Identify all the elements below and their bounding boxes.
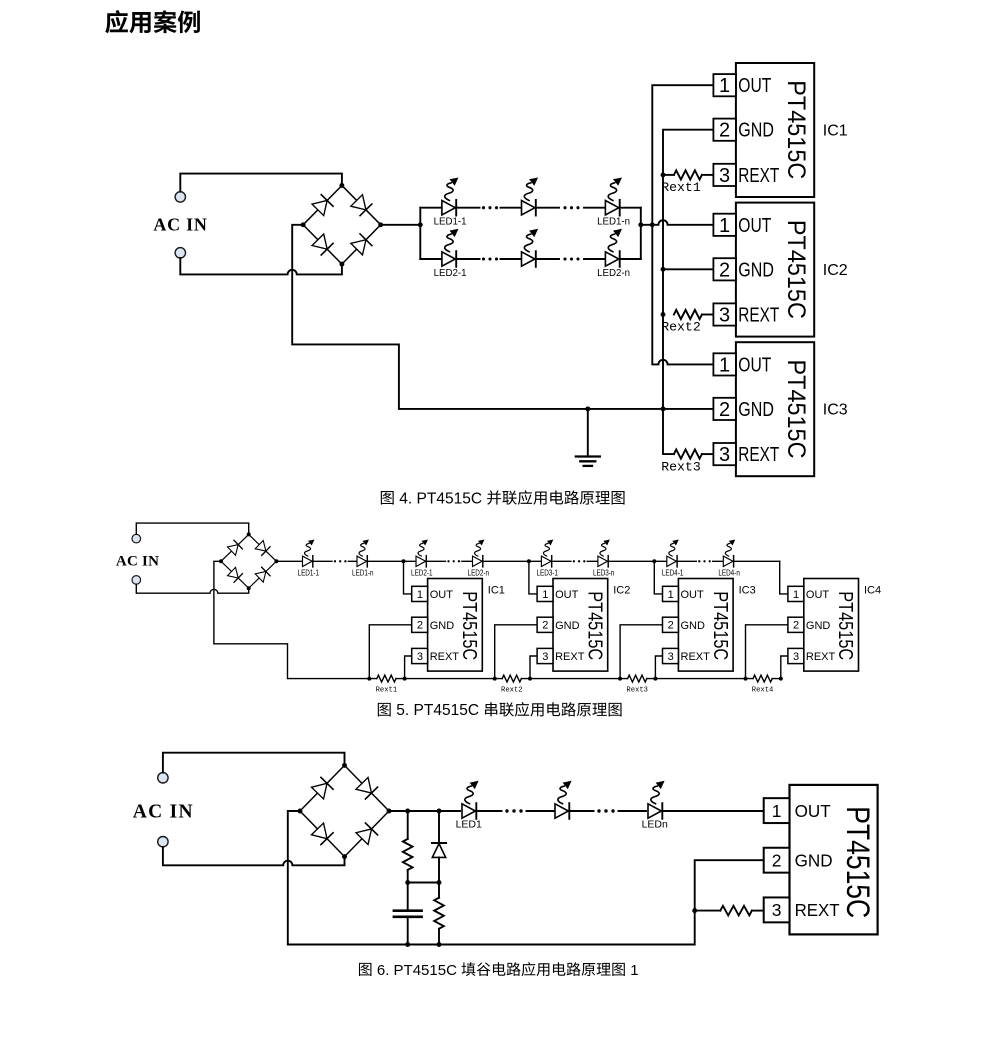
node: LED string right junction fig4 (638, 222, 643, 227)
svg-text:3: 3 (772, 900, 782, 920)
LED LED2-n fig5 (473, 540, 485, 567)
pin 1 (OUT) of IC2 fig5 (537, 586, 579, 601)
svg-text:6. PT4515C: 6. PT4515C (373, 962, 461, 979)
svg-text:4. PT4515C: 4. PT4515C (395, 490, 486, 507)
pin 1 (OUT) of IC3 fig4 (713, 353, 771, 376)
svg-text:LEDn: LEDn (642, 819, 668, 831)
ground symbol fig4 (576, 409, 600, 466)
wire: LED row2 segments fig4 (420, 258, 641, 260)
ellipsis dots LED line fig6 (505, 809, 614, 812)
node: GND bus junction IC3 pin2 fig4 (661, 406, 666, 411)
svg-text:LED1-1: LED1-1 (434, 216, 467, 228)
svg-text:REXT: REXT (681, 651, 711, 663)
svg-text:1: 1 (542, 589, 548, 601)
node: Rext junction on GND riser fig6 (692, 908, 697, 913)
svg-text:LED2-n: LED2-n (468, 569, 490, 578)
svg-text:REXT: REXT (430, 651, 460, 663)
wire: GND wire IC3 fig5 (620, 625, 662, 679)
IC IC1 PT4515C body fig5 (428, 579, 483, 672)
LED row2 middle fig4 (522, 229, 539, 267)
svg-text:Rext2: Rext2 (501, 687, 523, 695)
node: branch A mid junction fig6 (405, 880, 410, 885)
node: GND bus junction IC2 pin2 fig4 (661, 267, 666, 272)
pin 3 (REXT) of IC1 fig5 (412, 648, 460, 663)
wire Rext2 to pin3 fig4 (702, 314, 714, 316)
AC input terminal (bottom) fig5 (132, 576, 141, 585)
wire: bottom AC rail fig5 (hop over return riser) (136, 584, 248, 593)
node: valley-fill branch B top junction fig6 (437, 809, 442, 814)
svg-text:OUT: OUT (738, 354, 771, 376)
ellipsis dots row2 fig4 (482, 257, 580, 260)
svg-text:IC2: IC2 (823, 262, 848, 279)
svg-text:3: 3 (793, 651, 799, 663)
IC IC3 PT4515C body fig5 (678, 579, 733, 672)
svg-text:GND: GND (738, 399, 774, 421)
LED LED2-1 fig5 (416, 540, 428, 567)
svg-text:LED1-n: LED1-n (352, 569, 374, 578)
LED LED2-n fig4 (605, 229, 622, 267)
svg-text:REXT: REXT (738, 165, 779, 187)
AC input terminal (top) fig6 (158, 773, 168, 783)
svg-text:2: 2 (668, 620, 674, 632)
LED LED1-n fig5 (357, 540, 369, 567)
svg-text:IC1: IC1 (823, 123, 848, 140)
node: bus junction GND IC2 fig5 (493, 677, 497, 681)
resistor Rext3 fig5 (628, 675, 647, 682)
wire: LED series line fig5 (276, 560, 779, 562)
node: bus junction GND IC4 fig5 (744, 677, 748, 681)
LED LED4-n fig5 (723, 540, 735, 567)
svg-text:PT4515C: PT4515C (782, 80, 810, 179)
wire: branch B top lead fig6 (438, 811, 440, 843)
wire: REXT wire IC4 fig5 (781, 656, 788, 679)
node: branch A bottom junction fig6 (405, 942, 410, 947)
pin 3 (REXT) of IC2 fig4 (713, 303, 779, 326)
svg-text:LED3-n: LED3-n (593, 569, 615, 578)
wire: bottom AC rail fig6 (hop over return riser) (163, 847, 345, 865)
svg-text:REXT: REXT (738, 444, 779, 466)
node: bus junction REXT IC4 fig5 (779, 677, 783, 681)
caption figure 6 (359, 962, 639, 979)
svg-text:PT4515C: PT4515C (709, 591, 731, 660)
svg-text:PT4515C: PT4515C (458, 591, 480, 660)
wire: return from bridge left vertex to bottom bus fig5 (214, 561, 369, 678)
svg-text:PT4515C: PT4515C (782, 360, 810, 459)
IC IC3 PT4515C body fig4 (736, 342, 814, 476)
diode D1 (valley-fill) fig6 (432, 843, 446, 857)
svg-text:2: 2 (542, 620, 548, 632)
svg-text:REXT: REXT (795, 900, 840, 920)
svg-text:GND: GND (555, 620, 580, 632)
LED middle fig6 (555, 781, 572, 819)
pin 2 (GND) of IC1 fig4 (713, 119, 773, 142)
LED LED3-n fig5 (598, 540, 610, 567)
pin 2 (GND) of IC1 fig5 (412, 617, 455, 632)
wire: IC2 pin1 wire with hop fig4 (641, 220, 714, 225)
pin 1 (OUT) of IC4 fig5 (788, 586, 830, 601)
wire: LED row1 segments fig4 (420, 207, 641, 209)
wire: GND bus fig4 (663, 130, 713, 454)
svg-text:AC IN: AC IN (116, 554, 159, 570)
pin 2 (GND) of IC2 fig4 (713, 258, 773, 281)
wire: bottom bus segments fig5 (369, 678, 781, 680)
pin 3 (REXT) of IC4 fig5 (788, 648, 836, 663)
node: OUT bus at IC2 pin1 fig4 (650, 222, 655, 227)
svg-text:LED2-n: LED2-n (597, 267, 630, 279)
node: bus junction GND IC1 fig5 (367, 677, 371, 681)
svg-text:LED1: LED1 (456, 819, 482, 831)
wire: LED line segments fig6 (389, 810, 764, 812)
svg-text:1: 1 (719, 215, 730, 237)
wire: OUT riser IC1 fig5 (404, 561, 412, 594)
wire: return from bridge left vertex along bottom bus to GND pin fig6 (288, 811, 764, 945)
node: LED line junction IC1 OUT fig5 (402, 559, 406, 563)
resistor R2 (valley-fill) fig6 (434, 898, 444, 929)
wire: REXT wire IC2 fig5 (530, 656, 537, 679)
wire: REXT wire IC3 fig5 (655, 656, 662, 679)
svg-text:Rext1: Rext1 (661, 180, 701, 195)
resistor Rext3 fig4 (674, 450, 702, 459)
svg-text:1: 1 (668, 589, 674, 601)
resistor R1 (valley-fill) fig6 (403, 839, 413, 870)
caption figure 4 (381, 490, 625, 507)
wire: top AC rail fig6 (163, 753, 345, 773)
pin 3 (REXT) of IC fig6 (764, 897, 840, 922)
resistor Rext2 fig4 (674, 310, 702, 319)
wire: branch A bottom lead fig6 (407, 917, 409, 945)
wire: branch A top lead fig6 (407, 811, 409, 839)
svg-text:2: 2 (719, 120, 730, 142)
bridge rectifier BR1 fig5 (219, 532, 278, 590)
pin 2 (GND) of IC fig6 (764, 848, 833, 873)
svg-text:1: 1 (793, 589, 799, 601)
node: GND bus junction Rext1 fig4 (661, 172, 666, 177)
LED LEDn fig6 (648, 781, 665, 819)
wire: bottom AC rail to bridge bottom fig4 (hop over ground riser) (180, 258, 342, 274)
IC IC4 PT4515C body fig5 (804, 579, 859, 672)
AC input terminal (bottom) fig6 (158, 837, 168, 847)
svg-text:3: 3 (719, 165, 730, 187)
wire: Rext right lead fig6 (752, 910, 764, 912)
pin 2 (GND) of IC4 fig5 (788, 617, 831, 632)
IC IC2 PT4515C body fig5 (553, 579, 608, 672)
svg-text:LED4-n: LED4-n (718, 569, 740, 578)
caption figure 5 (378, 702, 622, 719)
LED LED2-1 fig4 (442, 229, 459, 267)
wire: OUT riser IC4 fig5 (780, 561, 788, 594)
svg-text:GND: GND (681, 620, 706, 632)
svg-text:LED4-1: LED4-1 (662, 569, 684, 578)
LED row1 middle fig4 (522, 178, 539, 216)
wire Rext3 to pin3 fig4 (702, 453, 714, 455)
svg-text:OUT: OUT (681, 589, 705, 601)
svg-text:2: 2 (417, 620, 423, 632)
svg-text:PT4515C: PT4515C (834, 591, 856, 660)
wire Rext1 to pin3 fig4 (702, 174, 714, 176)
svg-text:LED2-1: LED2-1 (411, 569, 433, 578)
bridge rectifier BR1 fig4 (301, 183, 384, 266)
svg-text:AC IN: AC IN (153, 215, 207, 235)
svg-text:LED3-1: LED3-1 (536, 569, 558, 578)
svg-text:LED1-1: LED1-1 (298, 569, 320, 578)
svg-text:GND: GND (795, 850, 833, 870)
svg-text:GND: GND (738, 120, 774, 142)
svg-text:2: 2 (772, 850, 782, 870)
pin 3 (REXT) of IC3 fig4 (713, 443, 779, 466)
ellipsis dots row1 fig4 (482, 206, 580, 209)
svg-text:2: 2 (719, 399, 730, 421)
IC IC2 PT4515C body fig4 (736, 203, 814, 337)
svg-text:3: 3 (668, 651, 674, 663)
node: LED string left junction fig4 (418, 222, 423, 227)
svg-text:1: 1 (719, 75, 730, 97)
resistor Rext1 fig5 (377, 675, 396, 682)
resistor Rext4 fig5 (753, 675, 772, 682)
svg-text:OUT: OUT (738, 75, 771, 97)
node: valley-fill branch A top junction fig6 (405, 809, 410, 814)
ellipsis dots LED line fig5 (334, 560, 711, 562)
AC input terminal (bottom) fig4 (175, 248, 185, 258)
wire: top AC rail to bridge top fig4 (180, 174, 342, 192)
wire: GND wire IC4 fig5 (746, 625, 788, 679)
wire: branch A mid fig6 (407, 870, 409, 911)
wire: bridge right vertex to LED bracket fig4 (381, 224, 421, 226)
wire: IC2 GND stub fig4 (663, 268, 713, 270)
svg-text:GND: GND (806, 620, 831, 632)
node: GND bus junction Rext2 fig4 (661, 312, 666, 317)
svg-text:Rext4: Rext4 (752, 687, 774, 695)
wire: Rext1 stub fig4 (663, 174, 674, 176)
svg-text:3: 3 (417, 651, 423, 663)
svg-text:3: 3 (542, 651, 548, 663)
LED LED1-1 fig5 (303, 540, 315, 567)
node: LED line junction IC3 OUT fig5 (652, 559, 656, 563)
pin 3 (REXT) of IC2 fig5 (537, 648, 585, 663)
capacitor C1 fig6 (394, 911, 422, 917)
svg-text:IC2: IC2 (613, 585, 630, 597)
svg-text:IC3: IC3 (739, 585, 756, 597)
svg-text:PT4515C: PT4515C (583, 591, 605, 660)
svg-text:OUT: OUT (738, 215, 771, 237)
resistor Rext2 fig5 (502, 675, 521, 682)
svg-text:REXT: REXT (806, 651, 836, 663)
node: LED line junction IC2 OUT fig5 (527, 559, 531, 563)
svg-text:3: 3 (719, 444, 730, 466)
svg-text:GND: GND (738, 259, 774, 281)
svg-text:OUT: OUT (555, 589, 579, 601)
wire: OUT riser IC2 fig5 (529, 561, 537, 594)
wire: ground return from bridge left vertex fig4 (292, 225, 713, 409)
pin 3 (REXT) of IC1 fig4 (713, 164, 779, 187)
svg-text:IC1: IC1 (488, 585, 505, 597)
svg-text:1: 1 (626, 962, 639, 979)
wire: REXT wire IC1 fig5 (405, 656, 412, 679)
LED LED1-1 fig4 (442, 178, 459, 216)
pin 2 (GND) of IC2 fig5 (537, 617, 580, 632)
svg-text:PT4515C: PT4515C (840, 806, 876, 918)
IC IC1 PT4515C body fig4 (736, 63, 814, 197)
svg-text:IC3: IC3 (823, 402, 848, 419)
wire: LED right bracket vertical fig4 (640, 208, 642, 259)
svg-text:IC4: IC4 (864, 585, 881, 597)
svg-text:Rext3: Rext3 (626, 687, 648, 695)
svg-text:LED2-1: LED2-1 (434, 267, 467, 279)
svg-text:Rext3: Rext3 (661, 459, 701, 474)
node: bus junction REXT IC3 fig5 (653, 677, 657, 681)
bridge rectifier BR1 fig6 (298, 763, 392, 859)
svg-text:2: 2 (719, 259, 730, 281)
svg-text:5. PT4515C: 5. PT4515C (392, 702, 483, 719)
node: ground symbol junction fig4 (585, 406, 590, 411)
svg-text:Rext1: Rext1 (376, 687, 398, 695)
pin 1 (OUT) of IC2 fig4 (713, 214, 771, 237)
LED LED3-1 fig5 (541, 540, 553, 567)
svg-text:Rext2: Rext2 (661, 320, 701, 335)
pin 2 (GND) of IC3 fig5 (663, 617, 706, 632)
resistor Rext1 fig4 (674, 170, 702, 179)
svg-text:REXT: REXT (738, 305, 779, 327)
node: branch B bottom junction fig6 (437, 942, 442, 947)
node: branch B mid junction fig6 (437, 880, 442, 885)
svg-text:3: 3 (719, 305, 730, 327)
pin 1 (OUT) of IC fig6 (764, 798, 831, 823)
LED LED1-n fig4 (605, 178, 622, 216)
wire: GND wire IC1 fig5 (369, 625, 411, 679)
svg-text:OUT: OUT (430, 589, 454, 601)
wire: branch B bottom lead fig6 (438, 929, 440, 945)
svg-text:AC IN: AC IN (133, 801, 194, 822)
wire: GND wire IC2 fig5 (495, 625, 537, 679)
pin 1 (OUT) of IC1 fig4 (713, 74, 771, 97)
svg-text:1: 1 (417, 589, 423, 601)
svg-text:OUT: OUT (806, 589, 830, 601)
IC PT4515C body fig6 (790, 785, 878, 935)
wire: LED left bracket vertical fig4 (419, 208, 421, 259)
wire: link between branches fig6 (408, 882, 439, 884)
AC input terminal (top) fig4 (175, 192, 185, 202)
resistor Rext fig6 (720, 906, 752, 916)
svg-text:REXT: REXT (555, 651, 585, 663)
svg-text:1: 1 (719, 354, 730, 376)
page title 应用案例 (105, 10, 200, 33)
AC input terminal (top) fig5 (132, 534, 141, 543)
pin 3 (REXT) of IC3 fig5 (663, 648, 711, 663)
pin 1 (OUT) of IC1 fig5 (412, 586, 454, 601)
wire: Rext left lead fig6 (695, 910, 721, 912)
LED LED1 fig6 (462, 781, 479, 819)
pin 1 (OUT) of IC3 fig5 (663, 586, 705, 601)
wire: top AC rail fig5 (136, 523, 248, 535)
wire: OUT bus (IC1 pin1 to IC3 pin1) fig4 (652, 85, 713, 364)
svg-text:LED1-n: LED1-n (597, 216, 630, 228)
svg-text:2: 2 (793, 620, 799, 632)
wire: OUT riser IC3 fig5 (654, 561, 662, 594)
svg-text:OUT: OUT (795, 801, 831, 821)
node: bus junction REXT IC2 fig5 (528, 677, 532, 681)
wire: branch B mid fig6 (438, 857, 440, 897)
node: bus junction GND IC3 fig5 (618, 677, 622, 681)
svg-text:1: 1 (772, 801, 782, 821)
node: bus junction REXT IC1 fig5 (403, 677, 407, 681)
pin 2 (GND) of IC3 fig4 (713, 398, 773, 421)
LED LED4-1 fig5 (667, 540, 679, 567)
svg-text:PT4515C: PT4515C (782, 220, 810, 319)
svg-text:GND: GND (430, 620, 455, 632)
